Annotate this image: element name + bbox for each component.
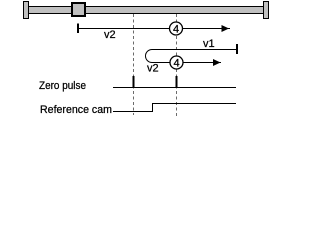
svg-text:4: 4	[173, 24, 179, 36]
row2 arrowhead	[213, 59, 221, 66]
cam block on rail	[72, 3, 85, 16]
svg-text:4: 4	[173, 58, 179, 70]
row1 method circle 4	[170, 22, 183, 35]
row1 motion line	[78, 28, 230, 30]
svg-text:v2: v2	[147, 63, 159, 75]
row1 start tick	[77, 24, 79, 34]
row1 arrowhead	[222, 25, 230, 32]
rail bar	[27, 7, 266, 14]
svg-text:v2: v2	[104, 29, 116, 41]
row2 v1 line	[152, 49, 237, 51]
zero pulse baseline	[113, 87, 236, 89]
row2 end tick	[236, 44, 238, 54]
dashed line 2 (zero pulse / home position)	[176, 14, 178, 117]
zero pulse tick 1	[133, 76, 135, 88]
reference cam signal trace	[113, 104, 236, 112]
svg-text:v1: v1	[203, 38, 215, 50]
dashed line 1 (reference cam edge position)	[133, 14, 135, 115]
rail right end cap	[264, 2, 269, 19]
rail left end cap	[24, 2, 29, 19]
zero pulse tick 2	[176, 76, 178, 88]
svg-text:Zero pulse: Zero pulse	[39, 80, 86, 92]
row2 motion line	[152, 62, 221, 64]
row2 u-turn arc	[146, 50, 152, 63]
row2 method circle 4	[170, 56, 183, 69]
svg-text:Reference cam: Reference cam	[40, 104, 112, 116]
